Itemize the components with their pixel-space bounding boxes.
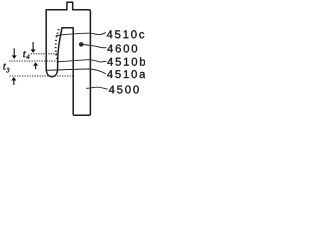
label 4600 — [107, 45, 137, 53]
t3 bottom arrow (up) — [11, 77, 16, 85]
case body 4500 outline — [46, 2, 90, 115]
weld dot 4600 — [80, 43, 83, 46]
t4 bottom arrow (up) — [33, 62, 38, 69]
t4 top arrow (down) — [31, 42, 36, 53]
leader 4510a — [47, 69, 106, 74]
label 4500 — [109, 86, 139, 94]
label 4510b — [107, 57, 145, 65]
layer boundary dashed D1 — [55, 30, 60, 62]
leader 4510c — [56, 33, 106, 36]
t3 top arrow (down) — [12, 48, 17, 59]
dotted line C (bottom of t3) — [10, 75, 74, 77]
dotted line B (t4/t3 boundary) — [9, 60, 57, 62]
leader 4600 — [83, 45, 106, 48]
label t4 — [23, 51, 29, 59]
leader 4500 — [86, 87, 107, 89]
dotted line A (top of t4) — [31, 53, 58, 55]
label 4510a — [107, 70, 145, 78]
leader 4510b — [58, 60, 106, 62]
label 4510c — [107, 30, 144, 38]
label t3 — [3, 63, 9, 72]
